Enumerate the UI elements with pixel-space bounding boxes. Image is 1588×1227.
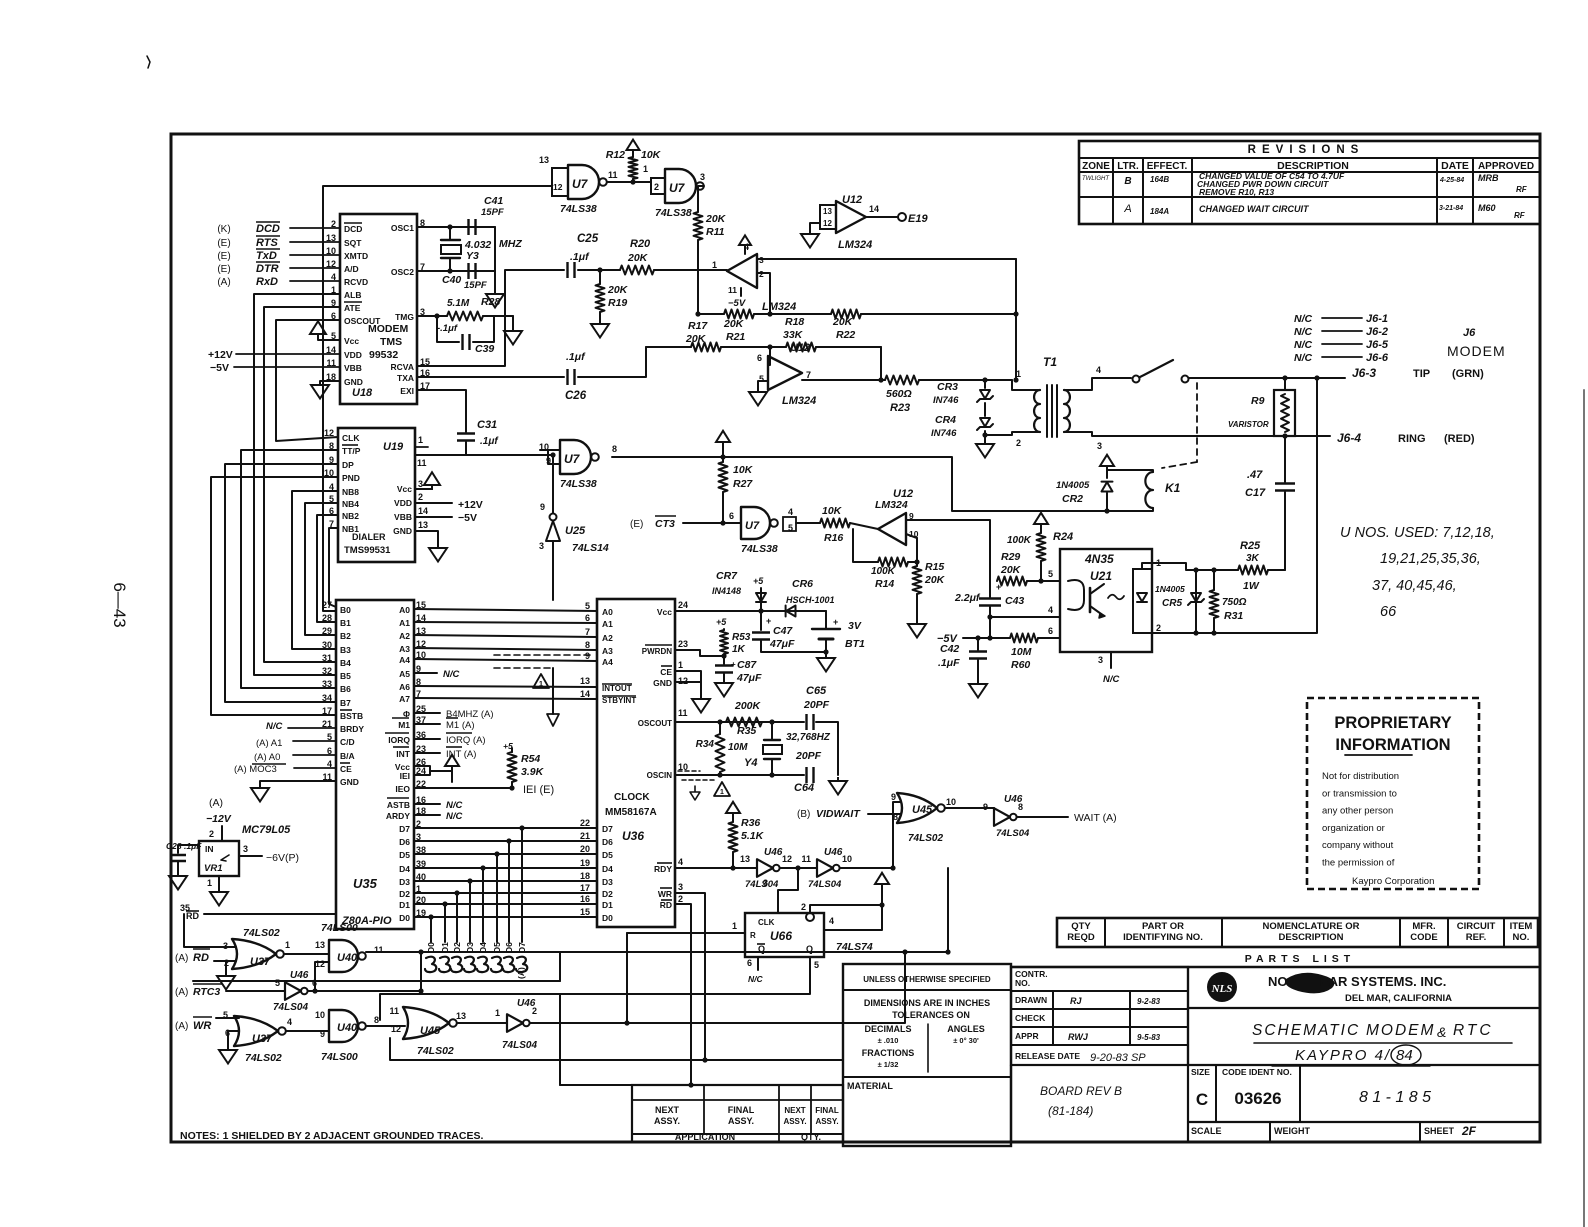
feedback resistor R14 100K	[853, 529, 878, 562]
svg-text:.47: .47	[1247, 469, 1263, 481]
U12c plus input ground	[758, 381, 768, 388]
svg-text:REF.: REF.	[1466, 932, 1487, 943]
svg-text:31: 31	[322, 653, 332, 663]
svg-text:M1: M1	[398, 720, 410, 730]
svg-text:164B: 164B	[1150, 175, 1169, 184]
svg-text:32,768HZ: 32,768HZ	[786, 732, 831, 743]
U36 PWRDN wire pin 23	[675, 650, 724, 656]
wire U37a to U40a	[284, 953, 329, 955]
svg-text:(GRN): (GRN)	[1452, 368, 1484, 380]
svg-text:A2: A2	[399, 631, 410, 641]
relay K1 coil	[1145, 472, 1153, 508]
svg-text:N/C: N/C	[446, 800, 463, 811]
svg-text:22: 22	[580, 818, 590, 828]
svg-text:REQD: REQD	[1067, 932, 1095, 943]
svg-text:PARTS LIST: PARTS LIST	[1245, 953, 1355, 965]
svg-text:28: 28	[322, 613, 332, 623]
svg-text:13: 13	[456, 1011, 466, 1021]
svg-text:.1μf: .1μf	[566, 351, 586, 363]
svg-text:A1: A1	[602, 619, 613, 629]
svg-text:B7: B7	[340, 698, 351, 708]
svg-text:10K: 10K	[641, 149, 662, 161]
resistor R11 20K	[694, 212, 703, 240]
svg-text:NB2: NB2	[342, 511, 359, 521]
svg-text:13: 13	[539, 155, 549, 165]
svg-text:U46: U46	[764, 847, 783, 858]
IC U19 TMS99531 dialer	[338, 428, 415, 562]
U66 Q-bar N/C	[757, 957, 759, 970]
svg-text:N/C: N/C	[266, 721, 283, 732]
svg-text:TWLIGHT: TWLIGHT	[1082, 176, 1110, 182]
svg-text:4: 4	[1048, 605, 1053, 615]
svg-text:DIMENSIONS ARE IN INCHES: DIMENSIONS ARE IN INCHES	[864, 998, 990, 1008]
svg-text:MFR.: MFR.	[1412, 921, 1435, 932]
svg-text:19: 19	[580, 858, 590, 868]
svg-text:U7: U7	[572, 177, 589, 191]
svg-text:A/D: A/D	[344, 264, 359, 274]
svg-text:R19: R19	[608, 297, 627, 309]
U36 Vcc wire to battery backup	[675, 610, 826, 612]
svg-text:99532: 99532	[369, 349, 398, 361]
svg-text:VDD: VDD	[394, 498, 412, 508]
svg-text:DCD: DCD	[344, 224, 362, 234]
svg-text:11: 11	[678, 708, 688, 718]
svg-text:VARISTOR: VARISTOR	[1228, 420, 1269, 429]
proprietary information box	[1307, 698, 1479, 889]
svg-text:DECIMALS: DECIMALS	[865, 1024, 912, 1034]
svg-text:9: 9	[320, 1029, 325, 1039]
wire U19 NB2 to U35 B1	[317, 515, 338, 622]
svg-text:PROPRIETARY: PROPRIETARY	[1334, 714, 1451, 732]
svg-text:74LS38: 74LS38	[560, 478, 597, 490]
svg-text:200K: 200K	[734, 700, 762, 712]
svg-text:(K): (K)	[217, 224, 230, 235]
svg-text:ALB: ALB	[344, 290, 361, 300]
svg-text:CLOCK: CLOCK	[614, 792, 650, 803]
verticals joining filter rows	[880, 347, 882, 380]
svg-text:47μF: 47μF	[769, 638, 795, 650]
svg-text:A4: A4	[602, 657, 613, 667]
svg-text:U21: U21	[1090, 569, 1112, 583]
svg-text:1: 1	[643, 164, 648, 174]
svg-text:CT3: CT3	[655, 518, 675, 530]
svg-text:VIDWAIT: VIDWAIT	[816, 808, 861, 820]
svg-text:N/C: N/C	[443, 669, 460, 680]
svg-text:33K: 33K	[783, 329, 804, 341]
svg-text:24: 24	[678, 600, 688, 610]
svg-text:QTY.: QTY.	[801, 1132, 821, 1142]
svg-text:74LS38: 74LS38	[741, 543, 778, 555]
svg-text:SCALE: SCALE	[1191, 1126, 1222, 1136]
svg-text:+: +	[833, 617, 838, 627]
wire U40b to U45b	[366, 1025, 405, 1027]
svg-text:100K: 100K	[871, 566, 896, 577]
svg-text:BOARD REV B: BOARD REV B	[1040, 1084, 1122, 1098]
svg-text:company without: company without	[1322, 840, 1394, 851]
zener CR4 IN746	[984, 403, 986, 416]
svg-text:NLS: NLS	[1211, 983, 1233, 995]
svg-text:SIZE: SIZE	[1191, 1067, 1210, 1077]
svg-text:TT/P: TT/P	[342, 446, 361, 456]
svg-text:1: 1	[678, 660, 683, 670]
svg-text:U7: U7	[669, 181, 686, 195]
svg-text:C39: C39	[475, 343, 494, 355]
svg-text:TOLERANCES ON: TOLERANCES ON	[892, 1010, 970, 1020]
svg-text:+12V: +12V	[208, 349, 233, 361]
op-amp U12a LM324 rx	[727, 254, 757, 288]
wire opamp inputs feedback	[757, 258, 1016, 260]
svg-text:-.1μf: -.1μf	[437, 323, 458, 334]
hook switch contacts	[1100, 377, 1131, 379]
svg-text:(RED): (RED)	[1444, 433, 1475, 445]
svg-text:DEL MAR, CALIFORNIA: DEL MAR, CALIFORNIA	[1345, 993, 1452, 1004]
svg-text:NEXT: NEXT	[655, 1105, 680, 1115]
svg-text:C43: C43	[1005, 595, 1024, 607]
svg-text:IN746: IN746	[931, 428, 957, 439]
wire U19 TT/P to U35 B6	[241, 450, 338, 688]
svg-text:1N4005: 1N4005	[1056, 480, 1090, 491]
svg-text:ATE: ATE	[344, 303, 361, 313]
svg-text:3: 3	[700, 172, 705, 182]
svg-text:11: 11	[608, 170, 618, 180]
svg-text:EXI: EXI	[400, 386, 414, 396]
svg-text:RDY: RDY	[654, 864, 672, 874]
diode CR5 1N4005	[1195, 570, 1197, 633]
svg-text:A3: A3	[602, 646, 613, 656]
U37b ground input	[227, 1031, 229, 1046]
svg-text:R35: R35	[737, 725, 756, 737]
svg-text:N/C: N/C	[748, 974, 764, 984]
svg-text:1: 1	[495, 1008, 500, 1018]
svg-text:D7: D7	[399, 824, 410, 834]
svg-text:RF: RF	[1514, 211, 1526, 220]
svg-text:B: B	[1124, 176, 1131, 187]
svg-text:DP: DP	[342, 460, 354, 470]
svg-text:J6: J6	[1463, 327, 1476, 339]
svg-text:2F: 2F	[1461, 1124, 1477, 1138]
svg-text:R9: R9	[1251, 395, 1265, 407]
svg-text:R23: R23	[890, 402, 910, 414]
IC U66 74LS74 flip-flop	[745, 913, 824, 957]
data bus D0-D7 U35 to U36	[414, 827, 597, 829]
svg-text:RING: RING	[1398, 433, 1426, 445]
long routing wires lower middle	[530, 952, 905, 1023]
svg-text:−6V(P): −6V(P)	[266, 852, 299, 864]
U35 ground	[260, 781, 336, 784]
capacitor C42 .1uF	[977, 638, 979, 650]
U35 clock and control stubs	[414, 712, 440, 714]
svg-text:IN746: IN746	[933, 395, 959, 406]
svg-text:U40: U40	[337, 1022, 358, 1034]
wire U40a output long	[366, 951, 948, 953]
scale weight sheet row	[1269, 1122, 1271, 1142]
svg-text:2: 2	[678, 894, 683, 904]
svg-text:MODEM: MODEM	[1447, 343, 1506, 359]
svg-text:3K: 3K	[1246, 553, 1260, 564]
svg-text:RF: RF	[1516, 185, 1528, 194]
svg-text:U45: U45	[912, 804, 933, 816]
wire U19 NB1 to U35 B0 inner	[329, 528, 338, 607]
svg-text:J6-6: J6-6	[1366, 352, 1389, 364]
svg-text:10K: 10K	[733, 464, 754, 476]
svg-text:R34: R34	[696, 739, 715, 750]
svg-text:RTS: RTS	[256, 237, 278, 249]
size / code ident row	[1188, 1064, 1538, 1066]
svg-text:U40: U40	[337, 952, 358, 964]
svg-text:CODE IDENT NO.: CODE IDENT NO.	[1222, 1067, 1292, 1077]
svg-text:CR4: CR4	[935, 414, 956, 426]
svg-text:REMOVE R10, R13: REMOVE R10, R13	[1199, 187, 1274, 197]
svg-text:J6-1: J6-1	[1366, 313, 1388, 325]
resistor row R17 R18	[646, 346, 691, 348]
inverter U25 74LS14 on vertical	[552, 455, 554, 513]
resistor R19 20K to ground	[599, 270, 601, 284]
svg-text:B1: B1	[340, 618, 351, 628]
svg-text:+5: +5	[716, 617, 727, 627]
svg-text:74LS04: 74LS04	[273, 1002, 308, 1013]
svg-text:184A: 184A	[1150, 207, 1169, 216]
svg-text:NEXT: NEXT	[784, 1106, 805, 1115]
svg-text:N/C: N/C	[1103, 674, 1120, 685]
svg-text:20PF: 20PF	[803, 699, 830, 711]
svg-text:D0: D0	[399, 913, 410, 923]
svg-text:B5: B5	[340, 671, 351, 681]
svg-text:(E): (E)	[217, 264, 230, 275]
svg-text:K1: K1	[1165, 481, 1181, 495]
svg-text:3: 3	[1098, 655, 1103, 665]
svg-text:100K: 100K	[1007, 535, 1032, 546]
svg-text:U36: U36	[622, 829, 644, 843]
svg-text:Vcc: Vcc	[397, 484, 412, 494]
svg-text:WAIT (A): WAIT (A)	[1074, 812, 1117, 824]
svg-text:13: 13	[418, 520, 428, 530]
capacitor C87 47uF	[723, 656, 725, 664]
svg-text:D3: D3	[602, 877, 613, 887]
svg-text:organization or: organization or	[1322, 823, 1385, 834]
svg-text:3: 3	[223, 941, 228, 951]
svg-text:3.9K: 3.9K	[521, 766, 545, 778]
svg-text:CHECK: CHECK	[1015, 1013, 1046, 1023]
svg-text:+: +	[766, 616, 771, 626]
data bus taps to connector squiggles	[428, 914, 433, 919]
svg-text:NO: NO	[1268, 974, 1288, 989]
U19 +12V	[415, 502, 452, 504]
svg-text:11: 11	[728, 285, 737, 295]
svg-text:15PF: 15PF	[464, 280, 487, 291]
svg-text:R12: R12	[606, 149, 625, 161]
svg-text:UNLESS OTHERWISE SPECIFIED: UNLESS OTHERWISE SPECIFIED	[863, 975, 991, 984]
capacitor C43 2.2uF	[989, 581, 991, 597]
svg-text:2: 2	[418, 492, 423, 502]
svg-text:D7: D7	[602, 824, 613, 834]
U21 phototransistor symbol	[1068, 580, 1084, 610]
inverter U46d 74LS04	[285, 982, 301, 1000]
svg-text:74LS02: 74LS02	[417, 1045, 454, 1057]
svg-text:74LS04: 74LS04	[996, 828, 1030, 839]
wire U36 RDY to inverters	[675, 867, 757, 869]
svg-text:RD: RD	[193, 952, 209, 964]
svg-text:RTC3: RTC3	[193, 986, 220, 998]
svg-text:GND: GND	[393, 526, 412, 536]
svg-text:74LS14: 74LS14	[572, 542, 609, 554]
svg-text:Kaypro Corporation: Kaypro Corporation	[1352, 876, 1434, 887]
resistor R54 3.9K	[511, 748, 513, 752]
svg-text:STBYINT: STBYINT	[602, 696, 636, 705]
svg-text:10M: 10M	[1011, 646, 1032, 658]
relay K1 dashed actuator link	[1196, 383, 1198, 462]
svg-text:A6: A6	[399, 682, 410, 692]
svg-text:2: 2	[654, 182, 659, 192]
svg-text:4: 4	[1096, 365, 1101, 375]
svg-text:TXA: TXA	[397, 373, 414, 383]
wire U19 NB4 to U35 B2	[305, 503, 338, 635]
svg-text:PART OR: PART OR	[1142, 921, 1184, 932]
svg-text:U46: U46	[824, 847, 843, 858]
svg-text:NOMENCLATURE OR: NOMENCLATURE OR	[1263, 921, 1360, 932]
svg-text:NB8: NB8	[342, 487, 359, 497]
svg-text:13: 13	[823, 207, 832, 216]
svg-text:any other person: any other person	[1322, 806, 1393, 817]
crystal Y3 4.032 MHZ circuit	[417, 226, 495, 228]
svg-text:N/C: N/C	[1294, 313, 1313, 325]
resistor R36 5.1K to RDY line	[726, 802, 740, 818]
svg-text:4: 4	[788, 507, 793, 517]
svg-text:A0: A0	[399, 605, 410, 615]
svg-text:A1: A1	[399, 618, 410, 628]
svg-text:2: 2	[801, 902, 806, 912]
svg-text:6: 6	[757, 353, 762, 363]
IC U36 MM58167A clock	[597, 599, 675, 927]
wire TXA to C26	[417, 376, 564, 378]
svg-text:J6-2: J6-2	[1366, 326, 1388, 338]
svg-text:INFORMATION: INFORMATION	[1335, 736, 1450, 754]
svg-text:WR: WR	[193, 1020, 211, 1032]
svg-text:(A): (A)	[217, 277, 230, 288]
svg-text:12: 12	[823, 219, 832, 228]
svg-text:6: 6	[747, 958, 752, 968]
resistor R24 100K pullup	[1034, 513, 1048, 529]
svg-text:9: 9	[983, 802, 988, 812]
svg-text:35: 35	[180, 903, 190, 913]
svg-text:21: 21	[580, 831, 590, 841]
border frame	[171, 134, 1540, 1142]
svg-text:(A): (A)	[209, 797, 223, 809]
svg-text:HSCH-1001: HSCH-1001	[786, 595, 835, 605]
svg-text:10M: 10M	[728, 742, 748, 753]
svg-text:14: 14	[869, 204, 879, 214]
capacitor C31 .1uf on EXI	[417, 390, 466, 432]
IC U18 TMS99532 modem	[340, 214, 417, 404]
company block with NLS logo	[1187, 967, 1189, 1065]
svg-text:SHEET: SHEET	[1424, 1126, 1455, 1136]
svg-text:J6-5: J6-5	[1366, 339, 1389, 351]
svg-text:RWJ: RWJ	[1068, 1032, 1089, 1042]
svg-text:11: 11	[417, 458, 427, 468]
resistor R23 560ohm	[885, 376, 919, 385]
svg-text:U7: U7	[745, 520, 760, 532]
svg-text:NOTES: 1 SHIELDED BY 2 ADJ: NOTES: 1 SHIELDED BY 2 ADJACENT GROUNDED…	[180, 1130, 483, 1142]
svg-text:74LS04: 74LS04	[745, 879, 779, 890]
capacitor C17 .47	[1284, 492, 1286, 570]
svg-text:D5: D5	[602, 850, 613, 860]
wire to WAIT (A)	[1017, 816, 1068, 818]
svg-text:10: 10	[315, 1010, 325, 1020]
svg-text:RELEASE DATE: RELEASE DATE	[1015, 1051, 1080, 1061]
U19 -5V	[415, 516, 452, 518]
unless otherwise specified box	[843, 964, 1011, 1146]
svg-text:QTY: QTY	[1071, 921, 1091, 932]
svg-text:SQT: SQT	[344, 238, 362, 248]
svg-text:MC79L05: MC79L05	[242, 824, 291, 836]
svg-text:GND: GND	[344, 377, 363, 387]
gate U37b 74LS02	[234, 1016, 278, 1046]
svg-text:11: 11	[374, 945, 384, 955]
svg-text:IEO: IEO	[395, 784, 410, 794]
svg-text:BSTB: BSTB	[340, 711, 363, 721]
svg-text:R20: R20	[630, 238, 651, 250]
svg-text:U7: U7	[564, 452, 581, 466]
svg-text:FINAL: FINAL	[728, 1105, 755, 1115]
svg-text:5: 5	[759, 374, 764, 384]
svg-text:VR1: VR1	[204, 863, 222, 874]
ASTB ARDY N/C stubs	[414, 803, 440, 805]
wire U18 ATE to U35 B4	[264, 307, 340, 662]
U19 ground	[415, 531, 438, 544]
svg-text:A: A	[1123, 203, 1131, 215]
svg-text:R: R	[750, 931, 756, 940]
svg-text:EAR SYSTEMS. INC.: EAR SYSTEMS. INC.	[1320, 974, 1446, 989]
svg-text:7: 7	[585, 627, 590, 637]
svg-text:3: 3	[763, 878, 768, 888]
svg-text:(E): (E)	[217, 238, 230, 249]
svg-text:WEIGHT: WEIGHT	[1274, 1126, 1310, 1136]
svg-text:A7: A7	[399, 694, 410, 704]
svg-text:U18: U18	[352, 387, 373, 399]
resistor R25 3K 1W	[1238, 566, 1268, 575]
svg-text:5: 5	[585, 601, 590, 611]
svg-text:(81-184): (81-184)	[1048, 1104, 1093, 1118]
svg-text:9-20-83 SP: 9-20-83 SP	[1090, 1052, 1146, 1064]
svg-text:C87: C87	[737, 659, 757, 671]
svg-text:D0: D0	[602, 913, 613, 923]
svg-text:3: 3	[418, 479, 423, 489]
OSCIN dashed stubs and grounds	[678, 770, 700, 772]
svg-text:750Ω: 750Ω	[1222, 597, 1247, 608]
svg-text:EFFECT.: EFFECT.	[1147, 161, 1188, 172]
wire top loop to U7a inputs	[323, 177, 552, 611]
svg-text:OSCOUT: OSCOUT	[638, 719, 672, 728]
svg-text:9: 9	[891, 792, 896, 802]
regulator VR1 MC79L05	[221, 826, 223, 841]
resistor R31 750ohm	[1213, 570, 1215, 590]
svg-text:2: 2	[532, 1006, 537, 1016]
C64 ground	[829, 777, 847, 795]
svg-text:9: 9	[540, 502, 545, 512]
svg-text:A2: A2	[602, 633, 613, 643]
svg-text:B/A: B/A	[340, 751, 355, 761]
svg-text:LM324: LM324	[838, 239, 872, 251]
svg-text:IN: IN	[205, 844, 214, 854]
svg-text:5.1K: 5.1K	[741, 830, 765, 842]
svg-text:REVISIONS: REVISIONS	[1248, 144, 1365, 156]
A4 tap vertical	[552, 668, 554, 714]
svg-text:CR7: CR7	[716, 570, 738, 582]
svg-text:M1 (A): M1 (A)	[446, 720, 475, 731]
gate U45a 74LS02 NOR wait	[897, 793, 937, 823]
svg-text:R54: R54	[521, 753, 540, 765]
inverter U46e 74LS04	[457, 1022, 507, 1024]
optocoupler U21 4N35	[1060, 549, 1152, 652]
